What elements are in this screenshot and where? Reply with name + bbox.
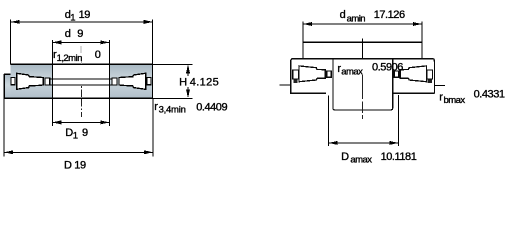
svg-text:amax: amax xyxy=(350,155,372,166)
dimension line d with arrows xyxy=(52,41,109,43)
svg-text:17.126: 17.126 xyxy=(374,9,405,21)
housing washer bottom left segment xyxy=(290,92,326,94)
cage rail square left-outer xyxy=(11,78,15,85)
cage rail square left-inner xyxy=(45,78,50,85)
svg-text:3,4min: 3,4min xyxy=(159,104,186,115)
svg-text:9: 9 xyxy=(77,28,83,40)
svg-text:1: 1 xyxy=(70,13,75,24)
extension line D left xyxy=(3,98,5,156)
shaft shoulder face line xyxy=(303,41,422,43)
cage rail nub below right square xyxy=(428,80,432,83)
svg-text:10.1181: 10.1181 xyxy=(381,151,417,163)
right view: mounting dimensions xyxy=(279,9,504,165)
bearing top face xyxy=(291,59,435,62)
svg-text:bmax: bmax xyxy=(444,95,466,106)
H dimension arrows xyxy=(186,64,190,73)
H extension lines xyxy=(153,64,193,98)
centerline (axis) of left view xyxy=(80,46,82,64)
axis tick above bearing xyxy=(362,39,364,59)
svg-text:19: 19 xyxy=(79,9,91,21)
left roller (wide end outboard) xyxy=(299,66,325,82)
extension line d/D1 left xyxy=(51,40,53,126)
left roller (tapered, wide end outboard) xyxy=(17,73,44,89)
bearing left OD edge xyxy=(290,61,292,94)
right roller (wide end outboard) xyxy=(400,66,426,82)
dimension line D1 with arrows xyxy=(52,121,109,123)
svg-text:4.125: 4.125 xyxy=(190,76,219,88)
svg-text:1: 1 xyxy=(73,131,78,142)
center block bottom xyxy=(333,108,393,110)
bearing right OD edge xyxy=(433,61,435,94)
bore line left / center block left edge xyxy=(332,59,334,108)
svg-text:D: D xyxy=(64,159,72,171)
cage rail square right-outer xyxy=(147,78,151,85)
left roller outboard cage square xyxy=(293,70,299,79)
svg-text:d: d xyxy=(65,28,71,40)
cage center band xyxy=(50,79,112,85)
svg-text:amin: amin xyxy=(347,13,366,24)
right roller (mirror) xyxy=(119,73,146,89)
extension line D_a right xyxy=(397,95,399,146)
housing washer outer lip left (shaded) xyxy=(4,74,10,98)
svg-text:0.4409: 0.4409 xyxy=(196,102,227,114)
dimension line d_a with arrows xyxy=(303,23,422,25)
bearing right OD edge xyxy=(151,64,153,98)
extension line d_a left xyxy=(302,22,304,59)
svg-text:0.5906: 0.5906 xyxy=(372,61,403,73)
left roller inboard cage square xyxy=(327,71,332,77)
housing washer bottom right segment xyxy=(393,92,435,94)
svg-text:0.4331: 0.4331 xyxy=(474,89,505,101)
housing surface left xyxy=(279,84,290,86)
dimension line D_a with arrows xyxy=(329,142,399,144)
svg-text:0: 0 xyxy=(95,49,101,61)
extension line d_a right xyxy=(421,22,423,59)
svg-text:9: 9 xyxy=(82,127,88,139)
svg-text:amax: amax xyxy=(341,67,363,78)
left view: bearing cross-section xyxy=(4,9,228,172)
bearing top face line xyxy=(10,63,152,65)
extension line D_a left xyxy=(328,95,330,146)
svg-text:D: D xyxy=(341,151,349,163)
centerline (axis) of right view xyxy=(362,75,364,119)
housing surface right xyxy=(434,84,445,86)
svg-text:r: r xyxy=(154,101,158,113)
right roller inboard cage square xyxy=(394,71,399,77)
extension line d1 left xyxy=(10,20,12,65)
svg-text:1,2min: 1,2min xyxy=(57,53,82,64)
right roller outboard cage square xyxy=(427,70,433,79)
cage rail nub below left square xyxy=(293,80,297,83)
extension line d/D1 right xyxy=(108,40,110,126)
cage rail square right-inner xyxy=(112,78,117,85)
svg-text:H: H xyxy=(179,76,187,88)
extension line d1/D right xyxy=(152,20,154,157)
svg-text:d: d xyxy=(340,9,346,21)
bearing bottom face line xyxy=(4,97,154,99)
bearing left OD edge xyxy=(4,74,10,98)
washer block right (shaded) xyxy=(109,65,152,98)
svg-text:19: 19 xyxy=(74,159,86,171)
dimension line D with arrows xyxy=(4,151,153,153)
washer block left (shaded) xyxy=(10,65,52,98)
bore line right / center block right edge xyxy=(392,59,394,108)
dimension line d1 with arrows xyxy=(11,21,153,23)
